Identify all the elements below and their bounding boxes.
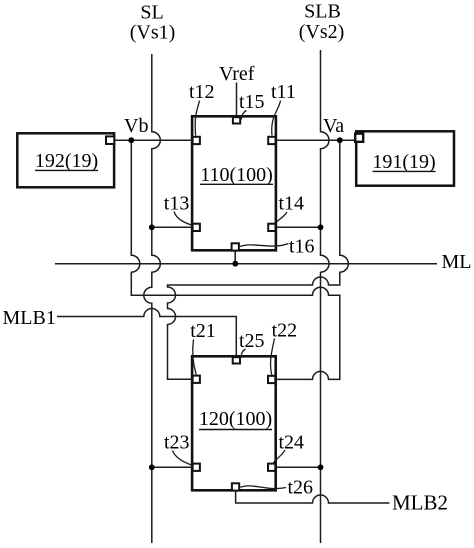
junction dot t13/SL bbox=[149, 224, 155, 230]
svg-text:t23: t23 bbox=[164, 432, 190, 454]
terminal t25 bbox=[233, 357, 240, 363]
leader line t26 bbox=[240, 486, 286, 489]
svg-text:(Vs1): (Vs1) bbox=[130, 22, 176, 44]
wire t23 to SL bbox=[152, 466, 192, 468]
terminal of box 191 bbox=[355, 134, 363, 142]
leader line t16 bbox=[240, 244, 289, 247]
terminal t26 bbox=[232, 483, 239, 490]
svg-text:t15: t15 bbox=[239, 91, 265, 113]
svg-text:110(100): 110(100) bbox=[200, 164, 273, 186]
underline 110(100) bbox=[200, 183, 273, 185]
svg-text:t13: t13 bbox=[164, 193, 190, 215]
svg-text:Va: Va bbox=[323, 115, 344, 137]
wire SLB vertical line (with hops at Va wire, ML) bbox=[321, 50, 330, 543]
svg-text:Vb: Vb bbox=[124, 115, 148, 137]
underline 120(100) bbox=[199, 429, 272, 431]
svg-text:ML: ML bbox=[442, 251, 472, 273]
leader line t24 bbox=[274, 450, 286, 463]
junction dot t23/SL bbox=[149, 464, 155, 470]
terminal t15 bbox=[233, 117, 240, 123]
terminal t21 bbox=[193, 376, 200, 383]
wire t13 to SL bbox=[152, 226, 192, 228]
wire Vb horizontal: from 192 terminal to t12 bbox=[115, 139, 191, 141]
wire node Vb riser down and across (conn2) to t22 bbox=[131, 140, 339, 379]
svg-text:(Vs2): (Vs2) bbox=[299, 21, 345, 43]
wire MLB2 from t26 riser with hop over SLB bbox=[236, 492, 390, 504]
block 120(100) bbox=[192, 356, 276, 490]
terminal t11 bbox=[268, 137, 275, 144]
wire SL vertical line (with hops at Vb wire, ML, conn2 wire) bbox=[144, 54, 161, 543]
svg-text:t25: t25 bbox=[239, 330, 265, 352]
svg-text:Vref: Vref bbox=[219, 63, 255, 85]
svg-text:t11: t11 bbox=[271, 81, 296, 103]
junction dot t16/ML bbox=[232, 261, 238, 267]
wire t14 to SLB bbox=[276, 226, 320, 228]
leader line t23 bbox=[173, 451, 192, 466]
svg-text:t12: t12 bbox=[189, 81, 215, 103]
svg-text:SL: SL bbox=[140, 2, 163, 24]
terminal t12 bbox=[193, 137, 200, 144]
svg-text:SLB: SLB bbox=[304, 1, 341, 23]
svg-text:MLB1: MLB1 bbox=[3, 307, 56, 329]
leader line t21 bbox=[193, 340, 196, 375]
box 191(19) bbox=[356, 131, 454, 185]
leader line t13 bbox=[174, 212, 192, 226]
terminal t14 bbox=[268, 224, 275, 231]
svg-text:t16: t16 bbox=[289, 236, 315, 258]
terminal t24 bbox=[268, 464, 275, 471]
leader line t14 bbox=[276, 212, 288, 223]
terminal t22 bbox=[268, 376, 275, 383]
svg-text:191(19): 191(19) bbox=[372, 151, 435, 173]
node Vb junction dot bbox=[128, 137, 134, 143]
box 192(19) bbox=[17, 133, 114, 187]
junction dot t14/SLB bbox=[318, 224, 324, 230]
wire ML horizontal line bbox=[55, 263, 437, 265]
wire Vref lead to t15 bbox=[236, 83, 238, 117]
svg-text:t22: t22 bbox=[272, 320, 298, 342]
junction dot t24/SLB bbox=[318, 464, 324, 470]
node Va junction dot bbox=[337, 137, 343, 143]
svg-text:t21: t21 bbox=[190, 320, 216, 342]
svg-text:120(100): 120(100) bbox=[199, 408, 272, 430]
wire MLB1 horizontal with hop over SL, corner down to t25 bbox=[57, 309, 236, 356]
leader line t11 bbox=[272, 101, 281, 136]
svg-text:t14: t14 bbox=[279, 193, 305, 215]
wire Va horizontal: from t11 to 191 terminal bbox=[276, 139, 354, 141]
terminal of box 192 bbox=[106, 136, 114, 144]
leader line t15 bbox=[241, 111, 246, 120]
terminal t23 bbox=[193, 464, 200, 471]
leader line t22 bbox=[271, 339, 275, 375]
underline 192(19) bbox=[35, 169, 98, 171]
svg-text:192(19): 192(19) bbox=[35, 150, 98, 172]
wire t16 riser to ML bbox=[234, 252, 236, 264]
svg-text:t26: t26 bbox=[288, 477, 314, 499]
svg-text:t24: t24 bbox=[279, 432, 305, 454]
terminal t16 bbox=[232, 243, 239, 250]
terminal t13 bbox=[193, 224, 200, 231]
leader line t25 bbox=[241, 349, 246, 358]
block 110(100) bbox=[192, 116, 276, 250]
leader line t12 bbox=[195, 101, 199, 136]
wire t24 to SLB bbox=[276, 466, 320, 468]
wire node Va riser down and across (conn1) to t21 bbox=[168, 140, 349, 379]
underline 191(19) bbox=[373, 170, 436, 172]
svg-text:MLB2: MLB2 bbox=[392, 491, 448, 515]
